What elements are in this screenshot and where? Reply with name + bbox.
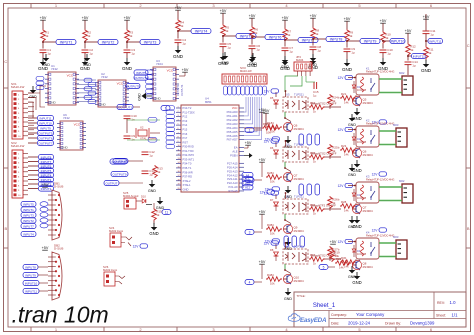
svg-text:5: 5	[178, 124, 179, 126]
svg-text:1k: 1k	[156, 213, 160, 217]
svg-text:VCC: VCC	[67, 74, 74, 78]
svg-text:12V: 12V	[133, 244, 140, 248]
svg-text:P24-A12: P24-A12	[227, 173, 238, 177]
svg-text:P01-AD1: P01-AD1	[227, 114, 238, 118]
svg-text:GND: GND	[49, 101, 57, 105]
net label INPUT2 stack2	[28, 181, 54, 186]
connector SV2 MA10-1W	[11, 141, 28, 198]
svg-text:P15: P15	[183, 128, 188, 132]
svg-text:M03: M03	[393, 235, 399, 239]
svg-text:R384: R384	[267, 223, 274, 227]
net label 12V U5	[264, 89, 279, 97]
net label 12V near SV4	[128, 243, 148, 249]
svg-text:+5V: +5V	[175, 6, 182, 10]
svg-text:GND: GND	[352, 116, 361, 121]
power flag +5V col R12	[405, 29, 412, 33]
net label INPUT4 stack2	[28, 172, 54, 177]
capacitor C14	[405, 60, 419, 67]
diode D5	[270, 96, 278, 109]
svg-text:18: 18	[178, 179, 180, 181]
wire +5V to resistor R6	[251, 18, 253, 26]
svg-text:P25-A13: P25-A13	[227, 169, 238, 173]
svg-text:R23: R23	[341, 144, 347, 148]
svg-text:+5V: +5V	[82, 16, 89, 20]
switch SW2 M402	[123, 191, 139, 209]
svg-text:1N4448: 1N4448	[357, 140, 367, 144]
svg-text:RST: RST	[183, 140, 189, 144]
svg-text:1µ: 1µ	[89, 52, 93, 56]
svg-text:M02: M02	[399, 71, 405, 75]
wire to transistor collector	[284, 219, 291, 223]
connector SV1 MA10-1W	[11, 82, 28, 139]
svg-text:1.0: 1.0	[450, 300, 457, 305]
svg-text:VCC: VCC	[117, 82, 124, 86]
capacitor C9	[344, 47, 356, 54]
svg-text:INPUT11: INPUT11	[25, 289, 37, 293]
relay K3 label	[366, 175, 405, 184]
ground symbol below C10	[378, 58, 389, 71]
wire 12V junction into opto	[285, 192, 287, 199]
svg-text:12V: 12V	[372, 172, 379, 176]
power flag +5V above DB1	[42, 183, 49, 187]
power flag +5V right of U3	[179, 68, 189, 76]
date field	[331, 320, 435, 325]
svg-text:4: 4	[178, 119, 179, 121]
net label INPUT8 stack2	[28, 154, 54, 159]
connector SV4 MA02	[109, 226, 132, 247]
svg-text:EasyEDA: EasyEDA	[300, 317, 327, 324]
capacitor C12	[142, 150, 156, 157]
wire junction node INPUT1	[42, 41, 56, 49]
wire cap to ground	[346, 52, 348, 59]
svg-text:19: 19	[178, 184, 180, 186]
svg-text:+5V: +5V	[259, 108, 266, 112]
ground right U6	[348, 164, 356, 177]
power flag +5V for INPUT2	[82, 16, 89, 20]
svg-text:U8: U8	[286, 245, 290, 249]
ground below Q8	[352, 272, 361, 285]
svg-text:GND: GND	[284, 297, 292, 301]
transistor Q9	[283, 224, 304, 234]
spice directive .tran 10m	[12, 302, 109, 328]
diode D8	[270, 248, 278, 261]
svg-text:B: B	[467, 226, 470, 231]
svg-text:XTAL1: XTAL1	[183, 183, 192, 187]
svg-text:10k: 10k	[270, 231, 275, 235]
svg-text:TLP521: TLP521	[294, 93, 304, 97]
svg-text:12V: 12V	[338, 184, 345, 188]
svg-text:MA02 Avgx: MA02 Avgx	[103, 268, 118, 272]
wire JP3 to C15	[306, 76, 315, 82]
wire +5V to resistor R1	[42, 20, 44, 29]
svg-text:GND: GND	[61, 146, 69, 150]
svg-text:P26-A14: P26-A14	[227, 165, 238, 169]
svg-text:+5V: +5V	[380, 19, 387, 23]
power flag near EA pin	[244, 141, 252, 148]
svg-text:XTAL2: XTAL2	[183, 179, 192, 183]
net label INPUT5 left of U3	[134, 70, 148, 75]
svg-text:Sheet:: Sheet:	[436, 313, 446, 317]
net label INPUT1 stack2	[28, 186, 54, 191]
svg-text:INPUT11: INPUT11	[429, 39, 441, 43]
capacitor C4	[175, 38, 187, 45]
wire +5V to resistor R5	[222, 13, 224, 24]
svg-text:OUTPUT5: OUTPUT5	[38, 131, 52, 135]
svg-text:R184: R184	[267, 121, 274, 125]
power flag +5V Q6	[259, 108, 266, 112]
transistor Q10	[283, 274, 304, 284]
svg-text:INPUT11: INPUT11	[413, 54, 425, 58]
svg-text:MA10-1W: MA10-1W	[11, 85, 25, 89]
IC U1 7432	[45, 64, 79, 105]
relay K1 body	[356, 74, 379, 95]
svg-text:GND: GND	[148, 189, 156, 193]
resistor R30 base	[340, 256, 356, 268]
svg-text:GND: GND	[149, 231, 158, 236]
net label INPUT5 stack2	[28, 168, 54, 173]
ground flag far right of SV3	[281, 56, 289, 69]
svg-text:1µ: 1µ	[351, 51, 355, 55]
svg-text:TLP521: TLP521	[294, 245, 304, 249]
relay contact bars U7	[284, 236, 305, 247]
capacitor C7	[282, 46, 294, 53]
svg-text:2019-12-24: 2019-12-24	[348, 320, 371, 325]
svg-text:11: 11	[178, 149, 180, 151]
svg-text:1k: 1k	[410, 48, 414, 52]
net label INPUT4	[191, 28, 211, 33]
green wires K1 to M02	[379, 79, 402, 93]
ground below Q6	[352, 160, 361, 173]
resistor R2	[83, 29, 92, 42]
ground right U7	[348, 216, 356, 229]
transistor Q6	[283, 122, 304, 132]
svg-text:5: 5	[323, 265, 325, 269]
svg-text:P30-RXD: P30-RXD	[183, 145, 194, 149]
terminal M02	[402, 184, 413, 203]
diode D7	[270, 198, 278, 211]
svg-text:GND: GND	[154, 97, 162, 101]
svg-text:MA04: MA04	[296, 58, 304, 62]
svg-text:1k: 1k	[45, 34, 49, 38]
wire +5V to resistor R2	[84, 20, 86, 29]
svg-text:P03-AD3: P03-AD3	[227, 122, 238, 126]
green wire below opto	[284, 214, 286, 220]
net label oval near R15	[162, 210, 171, 215]
wire junction node INPUT10	[382, 40, 390, 49]
net label OUTPUT1 top	[117, 104, 140, 109]
svg-text:10k: 10k	[270, 179, 275, 183]
svg-text:INPUT2: INPUT2	[102, 40, 115, 44]
green wire below opto	[284, 264, 286, 270]
resistor R15	[152, 203, 162, 221]
svg-text:10k: 10k	[270, 281, 275, 285]
svg-text:1µ: 1µ	[313, 93, 317, 97]
optocoupler U5	[283, 93, 308, 113]
svg-text:MA10-1W: MA10-1W	[240, 69, 252, 73]
svg-text:OUTPUT7: OUTPUT7	[38, 141, 52, 145]
svg-text:1µ: 1µ	[227, 46, 231, 50]
svg-text:M402 Avgxd: M402 Avgxd	[123, 194, 139, 198]
svg-text:P12: P12	[183, 115, 188, 119]
svg-text:INPUT5: INPUT5	[136, 71, 146, 75]
net label INPUT9 left stack	[28, 125, 54, 130]
ground below Q9	[284, 238, 292, 251]
net label OUTPUT4 left of U3	[134, 75, 148, 80]
net label OUTPUT below MCU	[113, 158, 143, 163]
wire 12V junction into opto	[285, 90, 287, 97]
svg-text:INPUT3: INPUT3	[23, 213, 34, 217]
svg-text:GND: GND	[42, 63, 50, 67]
ground below C13	[148, 180, 156, 193]
svg-text:12V: 12V	[264, 139, 271, 143]
svg-text:P37-RD: P37-RD	[183, 175, 193, 179]
relay K2 label	[366, 119, 399, 128]
net label 12V lower U7	[265, 239, 280, 244]
svg-text:EA: EA	[234, 146, 238, 150]
svg-text:1µ: 1µ	[317, 49, 321, 53]
power flag +5V above DB2	[42, 246, 49, 250]
wire +5V to resistor R3	[126, 20, 128, 29]
vertical net text right of U3 7404	[177, 84, 184, 96]
svg-text:D5: D5	[270, 96, 274, 100]
wire cap to ground	[284, 51, 286, 58]
wire cap to ground	[126, 53, 128, 58]
net label INPUT7	[298, 37, 318, 42]
resistor base Q10	[262, 264, 282, 285]
net label 12V right col	[372, 120, 387, 125]
net label OUT2	[104, 180, 143, 185]
svg-text:P00-AD0: P00-AD0	[227, 110, 238, 114]
svg-text:2N3904: 2N3904	[294, 127, 305, 131]
svg-text:TLP521: TLP521	[294, 195, 304, 199]
power flag +5V for INPUT10	[380, 19, 387, 23]
green wires K4 to M03	[379, 243, 396, 257]
svg-text:12V: 12V	[338, 76, 345, 80]
wire +5V to R12	[407, 33, 409, 43]
optocoupler U6	[283, 143, 308, 163]
svg-text:1k: 1k	[428, 51, 432, 55]
svg-text:P05-AD5: P05-AD5	[227, 130, 238, 134]
svg-text:1µ: 1µ	[47, 52, 51, 56]
svg-text:OUTPUT8: OUTPUT8	[111, 160, 125, 164]
svg-text:INPUT6: INPUT6	[269, 35, 282, 39]
IC U2 7432	[95, 72, 129, 107]
terminal M02	[402, 76, 413, 95]
svg-text:GND: GND	[352, 280, 361, 285]
net label 12V K2	[338, 127, 356, 132]
svg-text:INPUT9: INPUT9	[25, 273, 36, 277]
net oval xtal b	[148, 138, 157, 143]
resistor R13	[153, 165, 163, 178]
resistor R24 horizontal	[309, 101, 325, 113]
svg-text:1k: 1k	[254, 31, 258, 35]
power flag +5V Q9	[259, 210, 266, 214]
capacitor C3	[124, 48, 136, 55]
resistor R29 horizontal lower	[335, 257, 351, 269]
capacitor C9 xtal	[124, 134, 136, 141]
capacitor C11	[423, 29, 436, 36]
svg-text:P07-AD7: P07-AD7	[227, 138, 238, 142]
border row ticks left	[4, 59, 9, 248]
svg-text:11: 11	[165, 210, 169, 214]
net label 12V U8	[264, 241, 279, 249]
svg-text:13: 13	[178, 158, 180, 160]
svg-text:MA10-1W: MA10-1W	[11, 144, 25, 148]
optocoupler U7	[283, 195, 308, 215]
svg-text:GND: GND	[421, 68, 432, 73]
svg-text:INPUT7: INPUT7	[23, 224, 34, 228]
svg-text:1N4448: 1N4448	[357, 88, 367, 92]
transistor Q7 below K3	[352, 203, 373, 214]
ground symbol below C7	[280, 58, 291, 71]
svg-text:+5V: +5V	[282, 16, 289, 20]
svg-text:GND: GND	[309, 63, 317, 67]
ground right U5	[348, 114, 356, 127]
ground below R15	[149, 221, 158, 236]
resistor R26 horizontal	[309, 203, 325, 215]
wire junction node INPUT7	[284, 39, 298, 47]
svg-text:1k: 1k	[349, 34, 353, 38]
svg-text:7: 7	[178, 132, 179, 134]
wire web SV1 to U1	[28, 86, 46, 118]
connector SV3 MA10-1W	[222, 66, 267, 84]
svg-text:2N3904: 2N3904	[363, 153, 374, 157]
power flag +5V for INPUT9	[344, 17, 351, 21]
svg-text:7432: 7432	[51, 67, 58, 71]
flyback diode D1	[352, 81, 366, 93]
svg-text:VCC: VCC	[74, 123, 81, 127]
ground symbol below C9	[342, 59, 353, 72]
svg-text:B: B	[4, 226, 7, 231]
svg-text:17: 17	[178, 175, 180, 177]
wire to relay base Q10	[325, 258, 341, 260]
svg-text:1k: 1k	[332, 99, 336, 103]
svg-text:14k: 14k	[344, 100, 349, 104]
resistor R23 base	[340, 144, 356, 156]
green wires K3 to M02	[379, 187, 402, 201]
svg-text:M03: M03	[393, 123, 399, 127]
wire RN4 to +5V	[265, 113, 267, 126]
svg-text:1N4448: 1N4448	[357, 252, 367, 256]
resistor R28 base	[340, 200, 356, 212]
capacitor C8	[310, 45, 322, 52]
net oval xtal a	[148, 118, 157, 123]
svg-text:P02-AD2: P02-AD2	[227, 118, 238, 122]
label relay type RelayHTO2 OC-3FF	[311, 152, 337, 156]
svg-text:+5V: +5V	[330, 240, 337, 244]
ground symbol below C8	[308, 57, 319, 70]
svg-text:PSEN: PSEN	[230, 154, 237, 158]
resistor base Q6	[262, 112, 282, 133]
power flag +5V Q7	[259, 158, 266, 162]
net label 12V below MCU	[260, 190, 275, 195]
net label INPUT10 left stack	[28, 120, 54, 125]
svg-text:P23-A11: P23-A11	[227, 177, 238, 181]
capacitor C10 xtal	[124, 114, 138, 121]
flyback diode D4	[352, 245, 366, 257]
svg-text:10: 10	[178, 145, 180, 147]
net label INPUT11 left stack	[28, 115, 54, 120]
wire +5V to resistor R7	[284, 20, 286, 28]
svg-text:1k: 1k	[287, 33, 291, 37]
power flag +5V near RN4	[263, 109, 270, 113]
resistor R27 horizontal	[309, 253, 325, 265]
svg-text:GND: GND	[348, 123, 356, 127]
svg-text:MA02 Avgx: MA02 Avgx	[109, 229, 124, 233]
svg-text:2N3904: 2N3904	[363, 209, 374, 213]
svg-text:1µ: 1µ	[149, 154, 153, 158]
svg-text:GND: GND	[342, 67, 353, 72]
bus wires P0 to SV3	[244, 97, 261, 140]
connector SV5 MA02	[103, 265, 125, 286]
svg-text:D8: D8	[270, 248, 274, 252]
svg-text:2: 2	[249, 178, 251, 182]
svg-text:OUTPUT2: OUTPUT2	[177, 84, 180, 96]
sheet field	[436, 312, 458, 317]
flyback diode D3	[352, 189, 366, 201]
resistor R25 horizontal	[309, 151, 325, 163]
wire cap to ground	[222, 47, 224, 53]
optocoupler U8	[283, 245, 308, 265]
transistor Q8 below K4	[352, 259, 373, 270]
title text Sheet_1	[297, 294, 336, 309]
IC U3 7432	[57, 113, 86, 150]
svg-text:C: C	[467, 43, 470, 48]
svg-text:VCC: VCC	[167, 69, 174, 73]
svg-text:2N3904: 2N3904	[363, 101, 374, 105]
svg-text:12V: 12V	[264, 191, 271, 195]
svg-text:14k: 14k	[344, 152, 349, 156]
svg-text:GND: GND	[122, 66, 133, 71]
svg-text:INPUT9: INPUT9	[364, 39, 377, 43]
svg-text:+5V: +5V	[124, 16, 131, 20]
net label INPUT1	[56, 39, 76, 44]
net label INPUT8	[326, 36, 346, 41]
svg-text:M02: M02	[399, 179, 405, 183]
terminal M03	[396, 240, 407, 259]
svg-text:4: 4	[249, 280, 251, 284]
rev field	[437, 300, 456, 305]
ground symbol below C2	[80, 58, 91, 71]
ground flag right of SV3	[249, 53, 257, 66]
net number oval 5	[319, 265, 335, 270]
svg-text:INPUT1: INPUT1	[60, 40, 73, 44]
svg-text:U5: U5	[286, 93, 290, 97]
terminal M03	[396, 128, 407, 147]
svg-text:INPUT11: INPUT11	[39, 116, 51, 120]
svg-text:U6: U6	[286, 143, 290, 147]
wire +5V to resistor R8	[312, 18, 314, 27]
svg-text:2N3904: 2N3904	[294, 279, 305, 283]
wire below C14 to K1 region	[407, 65, 409, 75]
svg-text:1k: 1k	[315, 32, 319, 36]
svg-text:GND: GND	[348, 173, 356, 177]
svg-text:D-SUB: D-SUB	[54, 185, 63, 189]
wire to relay base Q6	[325, 106, 341, 108]
svg-text:P35-T1: P35-T1	[183, 166, 192, 170]
wire cap to ground	[42, 53, 44, 58]
svg-text:TITLE:: TITLE:	[297, 294, 306, 298]
MCU left pin bubbles	[166, 106, 175, 149]
transistor Q7	[283, 172, 304, 182]
svg-text:3: 3	[178, 115, 179, 117]
net label INPUT10 db2	[23, 280, 48, 285]
wire to relay base Q7	[325, 156, 341, 158]
resistor vertical R24b	[328, 94, 340, 109]
power flag +5V for INPUT4	[175, 6, 182, 10]
svg-text:14k: 14k	[344, 264, 349, 268]
svg-text:12V: 12V	[264, 241, 271, 245]
